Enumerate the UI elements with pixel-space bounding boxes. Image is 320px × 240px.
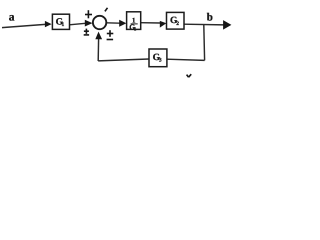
svg-text:3: 3 [159, 58, 162, 64]
svg-text:2: 2 [176, 21, 179, 27]
svg-text:b: b [207, 12, 213, 24]
svg-text:a: a [9, 12, 15, 24]
svg-text:1: 1 [62, 22, 65, 28]
